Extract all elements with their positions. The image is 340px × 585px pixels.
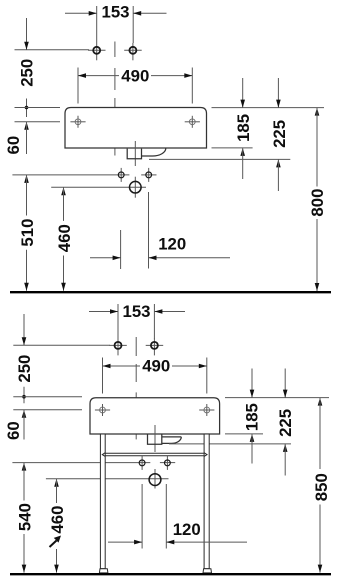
- dim 490 line left segment: [78, 75, 119, 77]
- dim 490 right arrowhead: [184, 73, 192, 78]
- dim 490 line left segment (lower view): [103, 365, 141, 367]
- svg-text:850: 850: [312, 473, 331, 501]
- dim 120 left arrow shaft (lower view): [108, 541, 142, 543]
- dim 185 upper shaft: [242, 78, 244, 108]
- dim 120 right arrowhead: [149, 256, 157, 261]
- dim 185 lower shaft (lower view): [251, 434, 253, 464]
- basin top extension line left: [15, 107, 61, 109]
- dim 510 bottom arrowhead: [24, 283, 29, 291]
- cross rail between legs: [102, 453, 207, 457]
- dim 153 right arrowhead: [133, 11, 141, 16]
- dim 460 bottom arrowhead: [61, 283, 66, 291]
- dim 120 right arrowhead (lower view): [166, 540, 174, 545]
- dim 850 bottom arrowhead: [318, 565, 323, 573]
- dim 185 lower arrowhead: [240, 148, 245, 156]
- dim 120 left arrowhead: [113, 256, 121, 261]
- dim 800 top arrowhead: [315, 108, 320, 116]
- dim 540 top arrowhead: [22, 463, 27, 471]
- drain tailpiece cup: [127, 149, 141, 159]
- dim 800 shaft lower: [316, 219, 318, 291]
- drain outlet spout (lower view): [162, 437, 182, 444]
- mounting holes extension line left: [15, 121, 61, 123]
- dim 250 lower tick line (lower view): [23, 387, 25, 404]
- dim 250 arrowhead: [24, 42, 29, 50]
- dim 120 left arrowhead (lower view): [134, 540, 142, 545]
- basin centre line seg1: [114, 42, 116, 58]
- drain outlet spout: [142, 148, 166, 156]
- basin top extension line right (lower view): [225, 397, 329, 399]
- dim 510 shaft upper: [26, 175, 28, 216]
- svg-text:60: 60: [4, 136, 23, 155]
- dim 540 shaft upper: [23, 463, 25, 501]
- basin centre line (lower view) seg2: [135, 364, 137, 382]
- dim 490 right arrowhead (lower view): [199, 364, 207, 369]
- basin centre line (lower view) seg4: [135, 425, 137, 439]
- dim 185 upper arrowhead: [240, 100, 245, 108]
- trap bottom extension line (lower view): [169, 443, 291, 445]
- svg-text:120: 120: [158, 234, 186, 253]
- svg-text:490: 490: [142, 357, 170, 376]
- dim 540 shaft lower: [23, 534, 25, 573]
- leg foot left: [99, 569, 108, 573]
- dim 800 bottom arrowhead: [315, 283, 320, 291]
- dim 120 right extension line: [148, 192, 150, 269]
- mounting hole left (lower view): [95, 409, 110, 411]
- dim 460 shaft lower (lower view): [56, 549, 58, 573]
- basin top extension line left (lower view): [13, 396, 82, 398]
- svg-text:510: 510: [18, 219, 37, 247]
- faucet hole left (lower view): [109, 344, 127, 346]
- fixing hole right circle (lower view): [166, 456, 168, 470]
- dim 60 arrow shaft: [26, 122, 28, 154]
- mounting hole left: [70, 121, 85, 123]
- dim 153 left extension line: [96, 6, 98, 43]
- dim 225 upper arrowhead (lower view): [283, 390, 288, 398]
- drain tailpiece cup (lower view): [148, 434, 162, 444]
- fixing hole left circle: [120, 168, 122, 182]
- dim 510 shaft lower: [26, 250, 28, 291]
- dim 153 right arrow shaft: [133, 12, 166, 14]
- dim 60 arrowhead: [24, 122, 29, 130]
- faucet-line extension to left (lower view): [13, 344, 110, 346]
- height adjustability diagonal arrow: [50, 541, 57, 548]
- dim 120 right arrow shaft: [149, 257, 231, 259]
- dim 153 right arrow shaft (lower view): [154, 311, 185, 313]
- trap bottom extension line: [149, 158, 290, 160]
- basin outline (front view): [65, 108, 207, 149]
- dim 460 extension line through drain (lower view): [46, 478, 169, 480]
- dim 250 dot terminator (lower view): [22, 395, 26, 399]
- dim 120 right extension line (lower view): [165, 484, 167, 549]
- svg-text:460: 460: [55, 224, 74, 252]
- dim 185 lower arrowhead (lower view): [250, 434, 255, 442]
- svg-text:60: 60: [4, 421, 23, 440]
- right fixing hole horizontal tick: [141, 174, 156, 176]
- dim 460 shaft upper: [63, 187, 65, 221]
- svg-text:120: 120: [173, 520, 201, 539]
- dim 250 arrow shaft (lower view): [23, 314, 25, 345]
- faucet hole left: [88, 49, 106, 51]
- svg-text:490: 490: [121, 66, 149, 85]
- dim 510 top arrowhead: [24, 175, 29, 183]
- svg-text:800: 800: [308, 189, 327, 217]
- dim 850 shaft lower: [319, 505, 321, 573]
- dim 225 upper arrowhead: [276, 100, 281, 108]
- svg-text:225: 225: [276, 409, 295, 437]
- dim 460 extension line through drain centre: [51, 186, 146, 188]
- svg-text:185: 185: [243, 403, 262, 431]
- dim 120 left extension line: [120, 230, 122, 269]
- dim 460 shaft lower: [63, 256, 65, 291]
- dim 540 extension line through left fixing hole: [12, 462, 150, 464]
- mounting hole right: [185, 121, 200, 123]
- fixing hole left circle (lower view): [141, 456, 143, 470]
- basin outline (lower view): [90, 398, 220, 434]
- mounting hole right (lower view): [199, 409, 214, 411]
- fixing hole right circle: [148, 168, 150, 182]
- dim 490 left arrowhead: [78, 73, 86, 78]
- drain pipe circle: [134, 177, 136, 198]
- dim 225 upper shaft: [277, 78, 279, 108]
- dim 185 lower shaft: [242, 148, 244, 179]
- dim 540 bottom arrowhead: [22, 565, 27, 573]
- dim 225 lower arrowhead: [276, 159, 281, 167]
- dim 490 right extension line (lower view): [206, 358, 208, 394]
- dim 185 upper shaft (lower view): [251, 369, 253, 398]
- basin centre line (lower view) seg3: [135, 392, 137, 406]
- svg-text:540: 540: [15, 503, 34, 531]
- faucet-line extension to left: [15, 49, 90, 51]
- basin centre line (lower view) seg1: [135, 337, 137, 356]
- dim 153 right extension line (lower view): [153, 304, 155, 339]
- dim 250 lower tick line: [26, 99, 28, 118]
- dim 250 dot terminator: [25, 106, 29, 110]
- dim 250 arrow shaft: [26, 18, 28, 50]
- dim 60 arrow shaft (lower view): [23, 410, 25, 440]
- dim 225 lower shaft: [277, 159, 279, 191]
- floor line (lower view): [10, 573, 331, 575]
- faucet hole right: [124, 49, 142, 51]
- dim 153 left arrow shaft: [65, 12, 97, 14]
- dim 490 right extension line: [191, 68, 193, 104]
- dim 490 left arrowhead (lower view): [103, 364, 111, 369]
- dim 225 lower arrowhead (lower view): [283, 444, 288, 452]
- dim 225 upper shaft (lower view): [284, 369, 286, 398]
- svg-text:153: 153: [102, 3, 130, 22]
- basin bottom extension line right (lower view): [225, 433, 263, 435]
- dim 60 arrowhead (lower view): [22, 410, 27, 418]
- right fixing hole horizontal tick (lower view): [160, 462, 175, 464]
- basin centre line seg4: [114, 142, 116, 156]
- basin centre line seg2: [114, 68, 116, 90]
- dim 800 shaft upper: [316, 108, 318, 187]
- drain centre line: [134, 141, 136, 166]
- mounting holes extension line left (lower view): [13, 409, 82, 411]
- dim 460 shaft upper (lower view): [56, 479, 58, 503]
- floor line: [10, 291, 331, 293]
- svg-text:460: 460: [48, 506, 67, 534]
- dim 460 top arrowhead (lower view): [54, 479, 59, 487]
- dim 460 top arrowhead: [61, 187, 66, 195]
- dim 153 left arrowhead (lower view): [110, 309, 118, 314]
- console leg left: [100, 434, 105, 569]
- basin top extension line right: [212, 107, 325, 109]
- dim 120 left arrow shaft: [90, 257, 121, 259]
- dim 153 left arrowhead: [89, 11, 97, 16]
- dim 250 arrowhead (lower view): [22, 337, 27, 345]
- dim 225 lower shaft (lower view): [284, 444, 286, 476]
- svg-text:225: 225: [270, 120, 289, 148]
- svg-text:250: 250: [15, 355, 34, 383]
- dim 490 line right segment (lower view): [172, 365, 207, 367]
- dim 120 left extension line (lower view): [141, 484, 143, 549]
- dim 185 upper arrowhead (lower view): [250, 390, 255, 398]
- dim 490 left extension line (lower view): [102, 358, 104, 394]
- basin bottom extension line right: [212, 147, 253, 149]
- drain centre line (lower view): [154, 425, 156, 452]
- dim 850 shaft upper: [319, 398, 321, 469]
- dim 490 left extension line: [77, 68, 79, 104]
- dim 153 left extension line (lower view): [117, 304, 119, 339]
- dim 460 bottom arrowhead (lower view): [54, 565, 59, 573]
- drain pipe circle (lower view): [154, 469, 156, 489]
- leg foot right: [203, 569, 212, 573]
- dim 153 left arrow shaft (lower view): [89, 311, 118, 313]
- dim 490 line right segment: [151, 75, 192, 77]
- faucet hole right (lower view): [146, 344, 164, 346]
- dim 120 right arrow shaft (lower view): [166, 541, 247, 543]
- dim 850 top arrowhead: [318, 398, 323, 406]
- basin centre line seg3: [114, 98, 116, 119]
- console leg right: [204, 434, 209, 569]
- dim 153 right arrowhead (lower view): [154, 309, 162, 314]
- dim 153 right extension line: [132, 6, 134, 43]
- svg-text:250: 250: [17, 59, 36, 87]
- svg-text:153: 153: [123, 302, 151, 321]
- dim 510 extension line through left fixing hole: [12, 174, 129, 176]
- svg-text:185: 185: [234, 114, 253, 142]
